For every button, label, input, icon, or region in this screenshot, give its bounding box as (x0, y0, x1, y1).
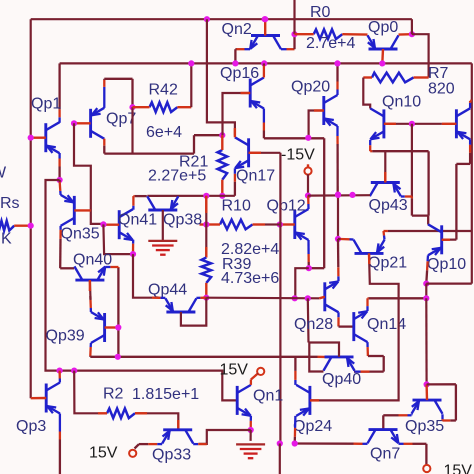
node W1 Qn2 junction (262, 16, 268, 22)
wire Qp1 base pin (31, 136, 46, 138)
wire QnE collector up (469, 103, 471, 109)
svg-text:Qn35: Qn35 (61, 226, 100, 243)
svg-text:Qp12: Qp12 (267, 198, 306, 215)
transistor Qn41 (118, 210, 121, 239)
wire Qp7 base branch down (74, 123, 103, 224)
wire Qn17 base wire (249, 152, 281, 154)
resistor R7 (372, 73, 414, 83)
node Qn2 base junction (262, 16, 268, 22)
wire mirror bus (147, 195, 235, 197)
transistor Qn2 (251, 34, 280, 37)
svg-text:1.815e+1: 1.815e+1 (132, 386, 199, 403)
wire R10 left pin (206, 223, 220, 225)
node Qp7 base junction (71, 120, 77, 126)
wire R10 right pin b (265, 223, 280, 225)
svg-text:2.7e+4: 2.7e+4 (306, 35, 355, 52)
node Qp24 emitter junction (292, 440, 298, 446)
node W1 mid junction (204, 16, 210, 22)
wire R21 bottom pin (221, 180, 223, 196)
wire Qp16 base wire (223, 93, 251, 135)
transistor Qn35 (73, 196, 76, 225)
svg-text:4.73e+6: 4.73e+6 (221, 270, 279, 287)
transistor Qn1 (236, 386, 239, 415)
wire R2 left pin red (98, 412, 107, 414)
wire R7 left drop (363, 78, 370, 109)
node Qp1 base junction (28, 135, 34, 141)
svg-text:15V: 15V (444, 463, 473, 474)
transistor Qp40 (325, 355, 354, 358)
svg-text:6e+4: 6e+4 (146, 124, 182, 141)
svg-text:Qn1: Qn1 (253, 388, 283, 405)
wire Qp35 left link (410, 414, 412, 415)
node bus mid junction (335, 192, 341, 198)
wire Qp24 base pin red (310, 399, 319, 401)
wire Qp21 base drop (310, 253, 399, 400)
wire R2 right pin red (135, 412, 147, 414)
transistor Qn17 (247, 138, 250, 167)
svg-text:-15V: -15V (281, 147, 315, 164)
wire Qp1 emitter fall (58, 153, 60, 159)
wire Qp44 left pin (160, 297, 165, 299)
node Qp39 base junction (115, 324, 121, 330)
resistor R0 (314, 29, 343, 39)
transistor Qn28 (323, 282, 326, 311)
terminal -15V (304, 167, 311, 174)
wire Qp20 emitter fall (336, 126, 338, 136)
wire Qn35 collector fall (59, 226, 61, 230)
transistor Qp10 (440, 225, 443, 254)
wire R42 right pin (177, 106, 191, 108)
wire Qp24 emitter fall (294, 416, 297, 428)
node Qp16 W2 junction (261, 60, 267, 66)
wire Qp40 base loop (309, 343, 339, 372)
svg-text:W: W (0, 165, 7, 182)
wire Qp12 collector riser (307, 204, 309, 209)
wire W1 right drop (411, 19, 413, 34)
svg-text:Qn7: Qn7 (370, 446, 400, 463)
terminal 15V bottom-right (423, 465, 430, 472)
wire Qn40 base down (89, 280, 92, 299)
wire Qp7 emitter loop (103, 87, 105, 108)
wire Qp16 collector fall (263, 109, 265, 123)
resistor Rs (0, 221, 14, 231)
transistor Qp38 (148, 209, 177, 212)
wire Qn10 base wire (384, 123, 442, 125)
wire Qp43 right link (401, 195, 405, 197)
wire emitter node left leg (295, 268, 309, 298)
wire Qp20 base pin red (314, 109, 324, 111)
wire Qn17 coll pin red (234, 128, 236, 137)
wire R2 drop (74, 371, 98, 414)
node R39 bottom junction (203, 295, 209, 301)
wire R0 left pin (295, 33, 314, 35)
wire R39 lead red bottom (205, 247, 207, 258)
wire Qn10 base pin red (384, 123, 396, 125)
wire Qn28 collector fall (337, 312, 339, 317)
node bus2 drop junction (305, 295, 311, 301)
resistor R42 (150, 102, 178, 112)
wire R42-node drop (131, 107, 133, 153)
wire Qn17 base pin red (249, 152, 261, 154)
node mid-rail bottom junction (277, 440, 283, 446)
wire Qn10 emitter down (369, 140, 371, 146)
transistor Qp12 (293, 210, 296, 239)
wire Qp12 base pin (280, 223, 295, 225)
wire Qn35 base pin (74, 209, 91, 211)
wire Qn2 emitter to W2 (245, 48, 251, 50)
wire R10 left stub (200, 223, 207, 225)
node R42 left junction (129, 104, 135, 110)
wire Qn28 base pin (319, 297, 325, 299)
node bus3 j2 (349, 192, 355, 198)
transistor Qn10 (382, 109, 385, 138)
wire Qn2 base pin (264, 19, 266, 35)
wire Qp20 emitter cont (337, 195, 339, 239)
wire Qp0 collector to node (399, 33, 412, 36)
svg-text:Qp39: Qp39 (46, 328, 85, 345)
transistor Qp20 (322, 96, 325, 125)
wire Qp35 base pin (425, 384, 428, 400)
node Qp20 W2 junction (334, 60, 340, 66)
transistor Qp39 (103, 313, 106, 342)
wire Qp43 base pin red (384, 172, 386, 183)
transistor Qp43 (371, 181, 400, 184)
wire Qn17 collector feed (207, 19, 235, 135)
svg-text:820: 820 (428, 81, 455, 98)
wire Qp16 base pin red (241, 92, 251, 94)
svg-text:Qn14: Qn14 (367, 316, 406, 333)
wire Qp24 collector riser (294, 380, 296, 385)
wire Qp39 emitter pin (90, 308, 92, 312)
wire Qn28 emitter riser (337, 276, 339, 281)
wire Qp21 left pin (350, 238, 354, 240)
node Qn41 emitter junction (130, 251, 136, 257)
wire Qp0 base pin (381, 49, 384, 63)
node R0 left junction (291, 31, 297, 37)
wire Qn17 base drop (279, 153, 281, 444)
wire R10 right pin (253, 223, 266, 225)
ground Qp38 (148, 240, 177, 242)
node Qp0 output junction (409, 31, 415, 37)
transistor Qn7 (369, 428, 398, 431)
wire Qp21 right loop (383, 236, 386, 240)
transistor Qp16 (249, 79, 252, 108)
wire Qn35 emitter riser (59, 191, 62, 195)
wire Qp3 base pin (31, 397, 47, 400)
wire Qn41 base node drop (103, 224, 133, 254)
wire Qp44 left feed (133, 254, 152, 298)
wire Qp3 emitter fall (59, 414, 61, 432)
wire R39 bottom pin (205, 283, 207, 298)
wire R21 top pin (221, 135, 223, 150)
transistor Q right-edge (455, 109, 458, 138)
resistor R10 (220, 220, 253, 230)
transistor Qp33 (163, 428, 192, 431)
wire Qn7 left pin (363, 443, 368, 445)
svg-text:Qp35: Qp35 (405, 418, 444, 435)
wire R7 left pin (363, 76, 372, 78)
wire Qp12 emitter fall (307, 240, 309, 254)
node Qp12 base junction (277, 221, 283, 227)
wire Qn14 collector fall (366, 342, 368, 347)
svg-text:Qp1: Qp1 (31, 96, 61, 113)
wire Qp10 base (442, 239, 457, 241)
wire Qp43 base up (384, 151, 386, 182)
svg-text:Qp38: Qp38 (163, 212, 202, 229)
wire Qp40 bar-left pin (318, 356, 325, 359)
wire Qn1 node left (199, 430, 251, 444)
node Qp12 emitter junction (306, 265, 312, 271)
node rail Qp3 junction (57, 368, 63, 374)
transistor Qn14 (352, 312, 355, 341)
svg-text:Qp21: Qp21 (368, 255, 407, 272)
wire R39 lead red top (205, 196, 207, 213)
node Qp35 base junction (424, 381, 430, 387)
wire Qp44 base loop (181, 298, 206, 326)
wire Qp16 emitter riser (263, 66, 265, 78)
svg-text:Qp24: Qp24 (293, 418, 332, 435)
node Qn2 emitter W2 junction (232, 60, 238, 66)
wire bus2 (206, 297, 319, 300)
transistor Qp3 (45, 384, 48, 413)
svg-text:R7: R7 (428, 65, 449, 82)
wire Qp10 base pin red (442, 238, 450, 241)
resistor R21 (218, 150, 228, 180)
transistor Qp1 (44, 123, 47, 152)
wire Qp40 right pin (355, 370, 361, 372)
wire R42 right riser (190, 63, 192, 107)
node Qn41 base junction (100, 221, 106, 227)
wire Qp7 collector down (103, 139, 105, 146)
wire Rs right pin (14, 224, 31, 226)
wire left rail (30, 19, 32, 398)
wire Qn41 emitter fall (132, 240, 134, 244)
node Qn10 base junction (409, 121, 415, 127)
ground bottom (236, 443, 265, 445)
wire Qp33 emitter left (157, 443, 162, 445)
node Qp1-Qn35 junction (57, 177, 63, 183)
svg-text:Qn28: Qn28 (294, 316, 333, 333)
transistor Qn40 (75, 279, 104, 282)
svg-text:Qp0: Qp0 (368, 19, 398, 36)
wire left long vertical (46, 180, 238, 400)
wire Qn2 collector to R0 (281, 48, 287, 50)
wire Qp44 right pin (196, 297, 200, 299)
wire Qn7 collector right (399, 443, 404, 445)
wire QnE emitter loop (469, 139, 471, 145)
wire R42 left pin (133, 106, 150, 108)
node W junction (115, 354, 121, 360)
wire R0 right pin (342, 33, 367, 36)
node Qp12 collector junction (305, 193, 311, 199)
wire right exit (426, 283, 472, 285)
node R10 left junction (203, 221, 209, 227)
transistor Qp44 (166, 311, 195, 314)
svg-text:Qn2: Qn2 (222, 21, 252, 38)
wire Qp10 emitter fall (426, 255, 429, 261)
node Qp20 base junction (305, 135, 311, 141)
node Qp10 emitter junction (423, 281, 429, 287)
wire Qn40 emitter link (105, 266, 110, 268)
svg-text:Qp33: Qp33 (152, 447, 191, 464)
wire QnE base pin (442, 123, 457, 125)
svg-text:R10: R10 (222, 198, 251, 215)
node Qn14 bus junction (423, 295, 429, 301)
svg-text:Rs: Rs (0, 195, 20, 212)
transistor Qp21 (355, 252, 384, 255)
node Qp21 feed junction (335, 236, 341, 242)
node rail R2 junction (71, 368, 77, 374)
wire right edge rail (471, 63, 473, 283)
node Rs junction (28, 223, 34, 229)
wire Qn17 emitter fall (234, 168, 236, 174)
node R39 top junction (203, 193, 209, 199)
wire Qp21 base pin red (368, 253, 371, 264)
wire R39 lead (205, 196, 207, 258)
wire em node down (425, 284, 427, 299)
wire top rail W1 (31, 18, 412, 20)
wire Qn41 base pin (103, 223, 119, 225)
svg-text:Qp40: Qp40 (322, 371, 361, 388)
wire Qp39 collector fall (90, 343, 93, 347)
svg-text:Qp16: Qp16 (220, 65, 259, 82)
svg-text:R2: R2 (103, 386, 124, 403)
node R21 top junction (219, 132, 225, 138)
node bus3 j1 (335, 192, 341, 198)
svg-text:Qp43: Qp43 (369, 197, 408, 214)
node bus2 left junction (292, 295, 298, 301)
wire R2 right lead (135, 413, 178, 430)
svg-text:R42: R42 (149, 82, 178, 99)
wire Qn40 base pin red (89, 280, 91, 291)
svg-text:Qp10: Qp10 (427, 256, 466, 273)
svg-text:Qn10: Qn10 (382, 94, 421, 111)
svg-text:Qn41: Qn41 (118, 212, 157, 229)
resistor R39 (202, 258, 212, 283)
wire Qp20 base (309, 111, 324, 138)
wire Qp35 right loop (441, 414, 443, 419)
wire Qn1 emitter fall (250, 416, 252, 421)
wire top entry (293, 0, 295, 34)
wire Qp40 feed drop (307, 298, 310, 342)
transistor Qp35 (413, 399, 442, 402)
svg-text:Qp44: Qp44 (148, 282, 187, 299)
svg-text:15V: 15V (89, 445, 118, 462)
terminal 15V mid (257, 368, 264, 375)
transistor Qp0 (369, 48, 398, 51)
node Qn1 emitter junction (248, 427, 254, 433)
resistor R2 (107, 409, 135, 419)
wire Qn1 collector to 15V (250, 380, 252, 385)
wire Qp38 base to ground (162, 210, 164, 241)
wire Qp33 collector right (193, 443, 198, 445)
wire R7 right pin (414, 76, 429, 78)
wire Qp7 base pin (74, 122, 91, 124)
node Qp0 base W2 junction (379, 60, 385, 66)
wire Qp33 base pin red (177, 420, 179, 430)
svg-text:Qn17: Qn17 (236, 168, 275, 185)
wire Qp1 collector riser (58, 117, 60, 123)
transistor Qp24 (308, 386, 311, 415)
wire mid drop from base node (411, 124, 413, 197)
svg-text:Qp3: Qp3 (16, 418, 46, 435)
wire Qn14 emitter riser (366, 306, 368, 311)
wire Qn41 collector link (132, 206, 134, 210)
wire down to Qp35 (425, 298, 428, 384)
wire -15V stub (307, 164, 309, 167)
wire node to R7 riser (412, 34, 429, 77)
wire -15V to node (307, 174, 309, 195)
wire bottom exit (279, 444, 281, 474)
terminal 15V left (129, 450, 136, 457)
svg-text:K: K (1, 231, 12, 248)
wire Qp3 collector riser (59, 379, 61, 383)
wire Qp20 collector riser (336, 90, 338, 96)
wire W2 bus (60, 62, 472, 64)
svg-text:15V: 15V (220, 362, 249, 379)
wire Qp39 base pin (105, 326, 119, 328)
svg-text:Qp20: Qp20 (291, 79, 330, 96)
transistor Qp7 (89, 109, 92, 138)
svg-text:2.27e+5: 2.27e+5 (148, 168, 206, 185)
svg-text:R0: R0 (310, 4, 331, 21)
node R21 bottom junction (219, 193, 225, 199)
node R42-W2 junction (188, 60, 194, 66)
wire Qn1 node to ground (250, 430, 252, 441)
wire bus3 (308, 194, 370, 197)
